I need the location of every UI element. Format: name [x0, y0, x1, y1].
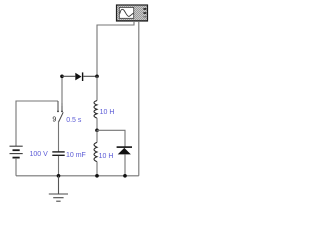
svg-text:0.5 s: 0.5 s — [66, 117, 82, 124]
wire battery top to switch throw 1 — [16, 101, 58, 146]
svg-text:9: 9 — [52, 116, 56, 123]
inductor L2 10 H — [94, 142, 97, 161]
wire bottom rail — [16, 175, 139, 177]
wire diode D1 to node B — [83, 75, 97, 77]
diode D1 (series, pointing right) — [75, 72, 83, 81]
blade — [59, 112, 64, 122]
throw 1 stub — [57, 101, 59, 111]
wire scope terminal B to bottom rail — [138, 21, 140, 176]
svg-text:10 H: 10 H — [99, 153, 114, 160]
wire inductor L2 to rail — [96, 162, 98, 176]
wire diode D2 to rail — [124, 154, 126, 176]
wire inductor L1 to node C — [96, 118, 98, 130]
battery V1 100 V — [10, 146, 23, 157]
wire scope terminal A to node — [97, 21, 134, 76]
wire battery bottom to rail — [15, 158, 17, 176]
wire switch pole to capacitor — [58, 121, 60, 152]
ground — [49, 176, 68, 201]
wire node A to diode D1 — [62, 75, 75, 77]
diode D2 (freewheel, pointing up) — [117, 146, 132, 154]
junction diode D2 / rail — [123, 174, 127, 178]
oscilloscope XSC1 — [117, 5, 148, 21]
wire throw 2 up to node A — [61, 76, 63, 106]
wire capacitor to rail — [58, 156, 60, 176]
switch S1 (time-delayed SPDT) — [52, 101, 63, 123]
svg-text:10 H: 10 H — [100, 109, 115, 116]
capacitor C1 10 mF — [52, 152, 64, 155]
wire node C down to inductor L2 — [96, 130, 98, 142]
junction node A (switch throw 2 / diode row) — [60, 74, 64, 78]
wire node C to diode D2 branch — [97, 130, 125, 146]
junction node C — [95, 128, 99, 132]
wire node B down to inductor L1 — [96, 76, 98, 100]
throw 2 stub — [61, 103, 63, 111]
junction at capacitor/rail — [57, 174, 61, 178]
junction node B (scope A / inductor branch) — [95, 74, 99, 78]
svg-text:10 mF: 10 mF — [66, 152, 86, 159]
svg-text:100 V: 100 V — [30, 151, 49, 158]
junction inductor L2 / rail — [95, 174, 99, 178]
inductor L1 10 H — [94, 101, 97, 119]
